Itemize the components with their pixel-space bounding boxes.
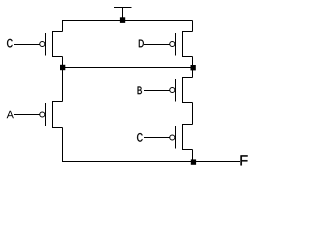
label B [138,87,142,95]
power supply bar (VDD) [114,7,132,9]
wire top supply rail [62,20,193,22]
wire output rail to F [62,161,240,163]
transistor B (middle-right PMOS) [144,77,193,103]
junction output node [191,159,196,164]
label F (output) [241,155,248,165]
wire B drain to C2 source [192,103,194,125]
label A [7,111,14,119]
transistor A (left PMOS) [14,101,63,128]
label D [139,40,144,48]
junction node left [60,65,65,70]
wire C2 drain to output rail [192,150,194,162]
wire rail to D source [192,21,194,32]
transistor C (top-left PMOS) [14,31,63,57]
label C (top-left) [7,39,13,48]
junction node right [191,65,196,70]
transistor C2 (bottom-right PMOS) [144,124,193,150]
wire C drain to A source [62,57,64,102]
wire internal node row [62,67,193,69]
junction at VDD tap [120,17,125,23]
wire A drain to output rail [62,128,64,162]
transistor D (top-right PMOS) [144,31,193,57]
wire VDD stub [122,8,124,21]
label C (bottom-right) [137,133,143,142]
wire D drain to B source [192,57,194,78]
wire rail to C source [62,21,64,32]
